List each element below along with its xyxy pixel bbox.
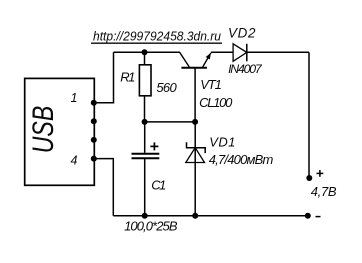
pin 2 junction <box>91 118 97 124</box>
label minus <box>316 216 321 218</box>
wire right rail down <box>308 52 310 178</box>
node base wire left <box>142 119 148 125</box>
diode VD2 <box>233 44 247 62</box>
capacitor C1 top lead <box>144 122 146 153</box>
pin 4 junction <box>91 156 97 162</box>
svg-text:4: 4 <box>71 153 78 167</box>
svg-text:R1: R1 <box>120 69 135 84</box>
capacitor C1 plates <box>132 154 160 159</box>
node VD1 bottom <box>192 213 198 219</box>
node C1 bottom <box>142 213 148 219</box>
svg-text:VD1: VD1 <box>209 134 235 149</box>
svg-text:1: 1 <box>71 91 78 105</box>
capacitor C1 bottom lead <box>144 159 146 216</box>
svg-text:USB: USB <box>26 106 60 153</box>
capacitor C1 plus sign <box>150 142 158 150</box>
wire top rail left <box>114 51 181 53</box>
wire diode to right rail <box>247 51 309 53</box>
wire R1 top lead <box>144 52 146 65</box>
svg-text:4,7В: 4,7В <box>311 184 337 199</box>
node output plus <box>306 175 312 181</box>
svg-text:CL100: CL100 <box>199 95 233 110</box>
node R1 top <box>142 49 148 55</box>
url label http://299792458.3dn.ru <box>91 29 222 44</box>
svg-text:VT1: VT1 <box>200 77 222 92</box>
pin 1 junction <box>91 100 97 106</box>
wire emitter to diode <box>211 51 233 53</box>
transistor VT1 collector diagonal <box>180 52 190 67</box>
transistor VT1 base bar <box>181 67 207 69</box>
wire R1 bottom lead <box>144 96 146 122</box>
wire bottom rail <box>113 215 307 217</box>
svg-text:4,7/400мВт: 4,7/400мВт <box>209 152 274 167</box>
transistor VT1 emitter diagonal <box>203 53 211 67</box>
node base junction <box>192 119 198 125</box>
label plus <box>317 170 324 177</box>
pin 3 junction <box>91 137 97 143</box>
wire mid base rail <box>145 121 196 123</box>
wire pin4 to bottom rail <box>94 159 114 216</box>
svg-text:560: 560 <box>156 80 177 95</box>
svg-text:100,0*25В: 100,0*25В <box>124 219 178 234</box>
wire base lead <box>194 68 196 122</box>
zener diode VD1 bottom lead <box>194 148 196 216</box>
svg-text:VD2: VD2 <box>228 26 256 41</box>
svg-text:IN4007: IN4007 <box>228 62 263 76</box>
transistor VT1 emitter arrow <box>206 53 211 60</box>
svg-text:C1: C1 <box>151 178 166 193</box>
zener diode VD1 triangle <box>186 148 205 163</box>
USB connector J1 box <box>25 78 95 185</box>
zener diode VD1 top lead <box>194 122 196 148</box>
node output minus <box>305 213 311 219</box>
zener diode VD1 cathode bar with wings <box>187 142 206 153</box>
svg-text:http://299792458.3dn.ru: http://299792458.3dn.ru <box>93 29 221 44</box>
wire pin1 to riser <box>94 52 114 103</box>
resistor R1 <box>139 65 151 96</box>
